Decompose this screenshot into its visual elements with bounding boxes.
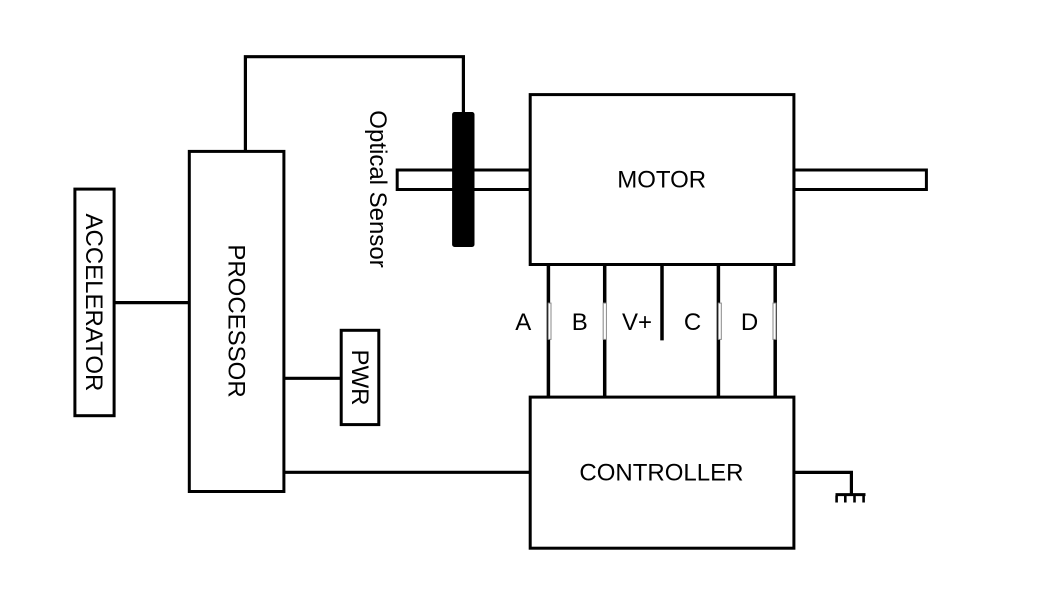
wire motor phase B: [603, 263, 607, 398]
right motor shaft: [794, 170, 927, 190]
block CONTROLLER: [530, 397, 794, 548]
svg-text:MOTOR: MOTOR: [617, 166, 706, 193]
ground symbol: [836, 495, 866, 503]
block ACCELERATOR: [75, 189, 114, 416]
connector break on wire D: [773, 303, 776, 339]
svg-text:ACCELERATOR: ACCELERATOR: [80, 213, 107, 391]
svg-text:PWR: PWR: [346, 350, 373, 406]
block PWR: [341, 330, 379, 424]
block PROCESSOR: [189, 151, 284, 491]
wire V+ stub: [660, 263, 664, 340]
svg-text:PROCESSOR: PROCESSOR: [222, 244, 249, 397]
wire motor phase D: [773, 263, 777, 398]
wire controller to ground: [794, 472, 852, 493]
connector break on wire B: [603, 303, 606, 339]
wire motor phase C: [717, 263, 721, 398]
connector break on wire A: [548, 303, 551, 339]
svg-text:V+: V+: [622, 309, 652, 336]
svg-text:D: D: [741, 309, 758, 336]
svg-text:B: B: [572, 309, 588, 336]
left motor shaft: [397, 170, 530, 190]
optical sensor disc: [452, 112, 474, 247]
svg-text:C: C: [684, 309, 701, 336]
wire processor to controller: [284, 471, 530, 474]
svg-text:CONTROLLER: CONTROLLER: [579, 459, 743, 486]
wire processor to pwr: [284, 377, 341, 380]
wire motor phase A: [547, 263, 551, 398]
svg-text:Optical Sensor: Optical Sensor: [364, 110, 391, 267]
wire accelerator to processor: [113, 301, 189, 304]
connector break on wire C: [718, 303, 721, 339]
block MOTOR: [530, 95, 794, 265]
wire processor-top to optical sensor: [245, 57, 463, 152]
svg-text:A: A: [515, 309, 531, 336]
